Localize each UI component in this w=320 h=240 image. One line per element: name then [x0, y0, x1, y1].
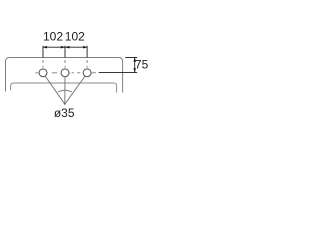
- svg-text:102: 102: [43, 30, 63, 44]
- svg-text:75: 75: [135, 58, 149, 72]
- svg-text:ø35: ø35: [54, 106, 75, 120]
- svg-text:102: 102: [65, 30, 85, 44]
